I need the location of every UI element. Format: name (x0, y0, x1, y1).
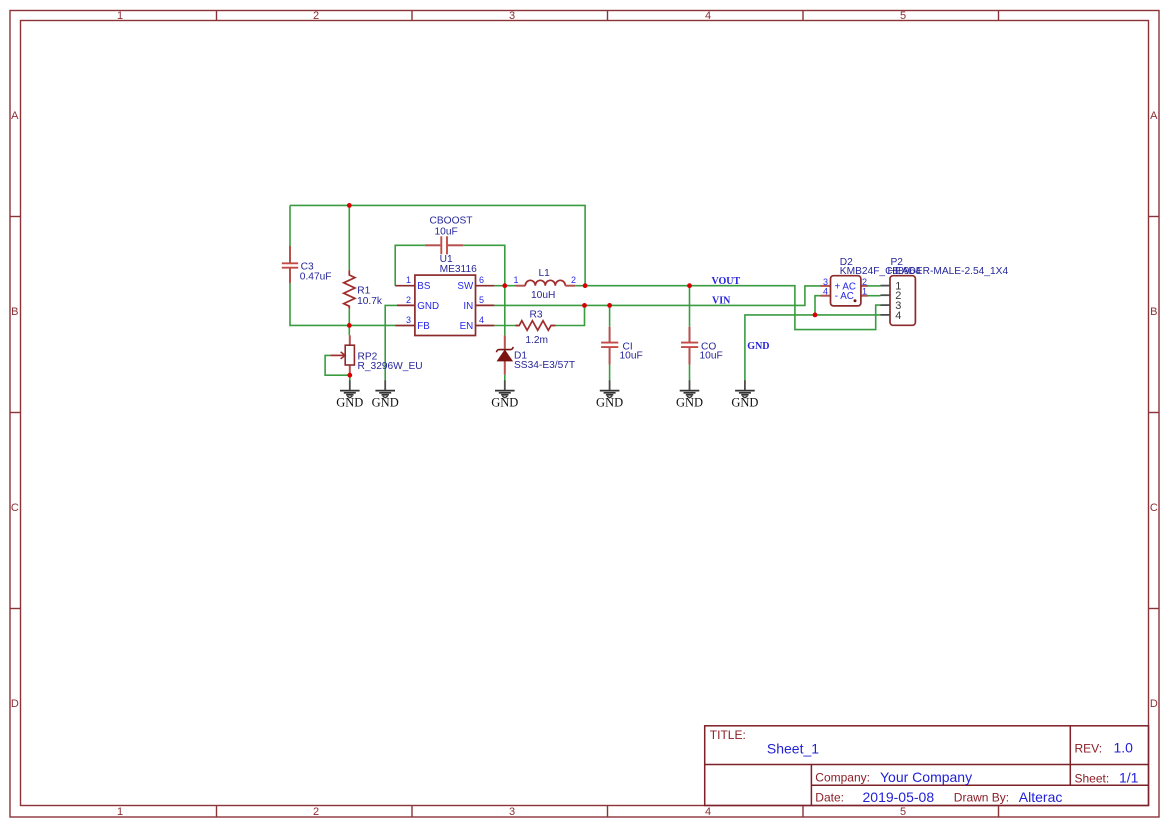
junction EN-VIN (582, 303, 587, 308)
capacitor C3 (282, 246, 332, 283)
svg-text:3: 3 (406, 315, 411, 325)
svg-text:3: 3 (823, 277, 828, 287)
svg-text:Alterac: Alterac (1019, 789, 1063, 805)
bridge rectifier D2 (821, 257, 922, 306)
svg-text:0.47uF: 0.47uF (300, 272, 332, 283)
wire CI top (609, 305, 611, 326)
svg-text:ME3116: ME3116 (440, 264, 478, 275)
inductor L1 (513, 268, 576, 301)
svg-text:4: 4 (895, 310, 901, 322)
svg-text:D: D (11, 698, 19, 710)
capacitor CI (601, 327, 643, 365)
svg-text:10.7k: 10.7k (357, 296, 383, 307)
capacitor CBOOST (425, 216, 472, 255)
svg-text:L1: L1 (539, 268, 551, 279)
svg-text:1: 1 (862, 287, 867, 297)
svg-text:1: 1 (117, 10, 123, 22)
svg-text:4: 4 (823, 287, 828, 297)
svg-text:10uF: 10uF (435, 227, 458, 238)
TITLE BLOCK (705, 726, 1149, 806)
ground RP2 (336, 380, 363, 409)
svg-text:Sheet_1: Sheet_1 (767, 741, 819, 757)
svg-text:R3: R3 (530, 309, 543, 320)
ground CO (676, 380, 703, 409)
svg-text:TITLE:: TITLE: (710, 728, 746, 742)
svg-text:EN: EN (460, 321, 474, 332)
wire top net C3/R1 to SW loop (290, 205, 585, 285)
wire D1 bottom to ground (504, 375, 506, 381)
svg-text:6: 6 (479, 275, 484, 285)
wire VOUT net (585, 286, 880, 330)
resistor R1 (344, 270, 383, 308)
svg-text:10uH: 10uH (531, 290, 555, 301)
svg-text:A: A (11, 110, 19, 122)
svg-text:1: 1 (117, 806, 123, 818)
svg-text:IN: IN (463, 301, 473, 312)
junction GND-D2 (813, 313, 818, 318)
svg-text:3: 3 (509, 806, 515, 818)
wire D2 pin2 to P2 pin1 (868, 285, 881, 287)
wire CO bottom to ground (689, 365, 691, 381)
wire BS loop CBOOST left (395, 245, 425, 285)
wire D2 minus pin riser (815, 296, 821, 315)
svg-text:R1: R1 (357, 286, 370, 297)
wire L1 right to node (575, 285, 585, 287)
svg-text:- AC: - AC (835, 291, 854, 302)
svg-text:4: 4 (479, 315, 484, 325)
wire CO top (689, 286, 691, 327)
wire SW to node (494, 285, 515, 287)
wire C3 top stub (289, 205, 291, 246)
wire CI bottom to ground (609, 365, 611, 381)
svg-text:1/1: 1/1 (1119, 770, 1139, 786)
SCHEMATIC (282, 203, 1009, 410)
wire RP2 bottom to ground (349, 375, 351, 381)
svg-text:2: 2 (862, 277, 867, 287)
ground CI (596, 380, 623, 409)
svg-text:5: 5 (900, 10, 906, 22)
svg-text:Your Company: Your Company (880, 769, 972, 785)
wire VIN net (494, 286, 820, 306)
svg-text:4: 4 (705, 10, 711, 22)
junction R1 bottom (347, 323, 352, 328)
svg-text:B: B (1150, 306, 1157, 318)
wire C3 bottom to FB (290, 283, 395, 325)
op-amp U1 (395, 254, 494, 336)
svg-text:10uF: 10uF (700, 351, 723, 362)
svg-text:1: 1 (406, 275, 411, 285)
svg-text:BS: BS (417, 281, 431, 292)
junction RP2 bottom (347, 373, 352, 378)
wire RP2 wiper loop (325, 355, 350, 375)
svg-text:5: 5 (900, 806, 906, 818)
svg-text:GND: GND (336, 396, 363, 410)
junction R1 top (347, 203, 352, 208)
svg-text:3: 3 (509, 10, 515, 22)
svg-text:1: 1 (513, 275, 518, 285)
svg-text:Company:: Company: (815, 771, 870, 785)
svg-text:HEADER-MALE-2.54_1X4: HEADER-MALE-2.54_1X4 (888, 266, 1009, 277)
diode D1 (497, 335, 576, 375)
wire SW node down to D1 (504, 286, 506, 336)
capacitor CO (681, 327, 723, 365)
svg-text:4: 4 (705, 806, 711, 818)
ground net GND (731, 380, 758, 409)
wire CBOOST right to SW node (463, 245, 505, 285)
svg-text:Sheet:: Sheet: (1075, 772, 1110, 786)
wire R1 top (348, 205, 350, 270)
svg-text:C: C (1150, 502, 1158, 514)
svg-text:10uF: 10uF (620, 351, 643, 362)
svg-text:SW: SW (457, 281, 474, 292)
wire D2 pin1 to P2 pin2 (868, 295, 881, 297)
potentiometer RP2 (330, 335, 422, 375)
svg-text:B: B (11, 306, 18, 318)
svg-text:5: 5 (479, 295, 484, 305)
svg-text:GND: GND (596, 396, 623, 410)
svg-text:D: D (1150, 698, 1158, 710)
wire GND net to P2 pin4 (745, 315, 881, 381)
svg-text:1.0: 1.0 (1114, 740, 1134, 756)
svg-text:Drawn By:: Drawn By: (954, 791, 1009, 805)
junction CO-VOUT (687, 283, 692, 288)
svg-text:GND: GND (417, 301, 439, 312)
svg-text:2: 2 (313, 10, 319, 22)
svg-text:GND: GND (676, 396, 703, 410)
wire R1 bottom to RP2 (348, 309, 350, 336)
svg-text:VOUT: VOUT (712, 276, 741, 287)
wire R3 to VIN (551, 305, 585, 325)
svg-text:GND: GND (747, 341, 769, 352)
wire U1 GND pin to ground (385, 305, 397, 381)
connector P2 (881, 257, 1009, 325)
svg-text:R_3296W_EU: R_3296W_EU (358, 361, 423, 372)
junction CI-VIN (607, 303, 612, 308)
svg-text:VIN: VIN (712, 296, 731, 307)
svg-text:A: A (1150, 110, 1158, 122)
junction L1 out (583, 283, 588, 288)
svg-text:2019-05-08: 2019-05-08 (863, 789, 935, 805)
ground D1 (491, 380, 518, 409)
svg-text:REV:: REV: (1075, 742, 1103, 756)
svg-text:GND: GND (731, 396, 758, 410)
junction SW node (502, 283, 507, 288)
svg-text:GND: GND (491, 396, 518, 410)
svg-text:Date:: Date: (815, 791, 844, 805)
wire EN to R3 (494, 325, 519, 327)
svg-text:2: 2 (313, 806, 319, 818)
svg-text:1.2m: 1.2m (525, 335, 548, 346)
resistor R3 (515, 309, 555, 346)
svg-text:FB: FB (417, 321, 430, 332)
svg-text:C: C (11, 502, 19, 514)
svg-text:SS34-E3/57T: SS34-E3/57T (514, 360, 575, 371)
ground U1 GND pin (372, 380, 399, 409)
svg-text:2: 2 (571, 275, 576, 285)
svg-text:GND: GND (372, 396, 399, 410)
svg-text:2: 2 (406, 295, 411, 305)
svg-text:CBOOST: CBOOST (430, 216, 473, 227)
